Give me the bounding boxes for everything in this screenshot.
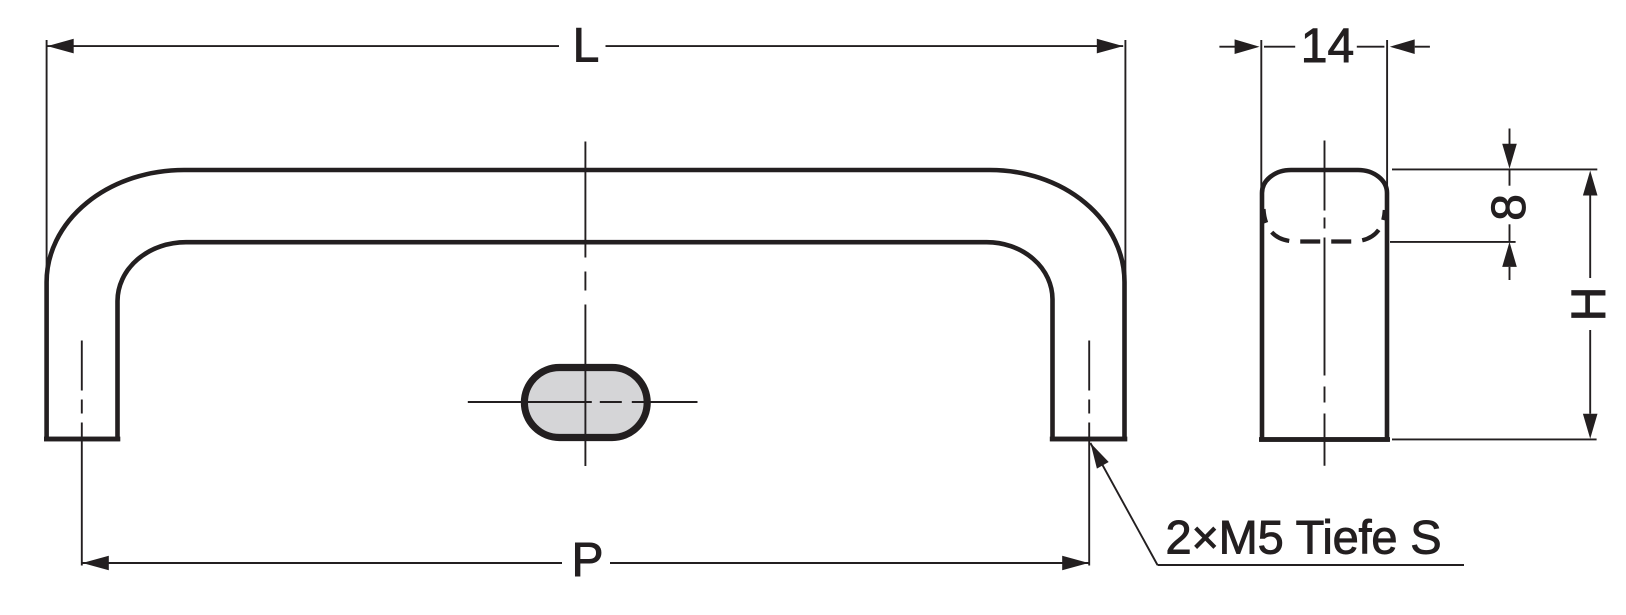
- svg-text:14: 14: [1301, 20, 1354, 73]
- svg-text:H: H: [1563, 287, 1616, 322]
- svg-text:P: P: [571, 534, 603, 587]
- svg-text:8: 8: [1483, 194, 1536, 221]
- svg-text:2×M5 Tiefe S: 2×M5 Tiefe S: [1166, 511, 1442, 564]
- svg-text:L: L: [573, 20, 600, 73]
